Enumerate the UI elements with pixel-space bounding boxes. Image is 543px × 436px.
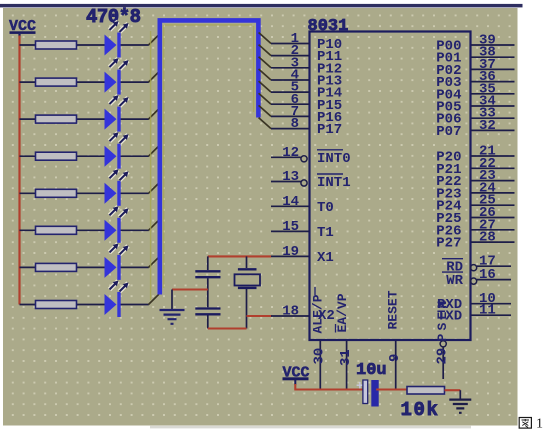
LED D3 [105,95,129,132]
wire: R7 leads and LED7 anode/cathode wires [20,266,149,268]
pin 16 (WR) right side [442,267,511,289]
IC U1 8031 body [310,32,471,341]
capacitor C2 [195,309,220,329]
svg-text:16: 16 [479,267,496,283]
pin 12 (INT0) left side [271,145,351,167]
LED D1 [105,21,129,58]
pin name RXD [437,297,462,313]
pin 7 (P16) left side [271,104,342,126]
svg-text:8: 8 [291,116,299,132]
svg-text:WR: WR [446,273,463,289]
svg-text:11: 11 [479,303,496,319]
svg-text:32: 32 [479,118,496,134]
LED D5 [105,169,129,206]
pin 36 (P03) right side [436,69,514,91]
pin 25 (P24) right side [436,193,514,215]
svg-text:X1: X1 [317,250,334,266]
wire: X1 net (pin19 to crystal/C1, red) [208,255,271,257]
pin 14 (T0) left side [271,194,334,216]
bus entry to pin 2 [259,45,271,56]
resistor R7 (470) [36,263,77,271]
bus (P1 port bus, blue U shape) [151,20,259,300]
bus entry to pin 4 [259,69,271,80]
svg-text:T0: T0 [317,200,334,216]
svg-text:10k: 10k [401,399,440,421]
pin 9 (RESET) bottom [385,290,403,389]
resistor R6 (470) [36,226,77,234]
wire: X2 net to pin 18 (red) [247,315,273,317]
power symbol VCC (bottom) [283,364,310,385]
svg-text:12: 12 [282,145,299,161]
wire: ground branch from C1/C2 junction (red) [172,288,208,290]
bus entry from LED3 [149,109,159,119]
ground symbol (reset) [449,390,471,413]
pin 26 (P25) right side [436,205,514,227]
bus entry to pin 7 [259,105,271,116]
svg-text:P07: P07 [436,124,461,140]
pin 2 (P11) left side [271,43,342,65]
LED D2 [105,58,129,95]
svg-text:T1: T1 [317,225,334,241]
svg-text:P17: P17 [317,122,342,138]
bus entry to pin 3 [259,57,271,68]
bus entry to pin 8 [259,118,271,129]
bus entry from LED7 [149,257,159,267]
svg-text:INT0: INT0 [317,151,351,167]
wire: VCC to C3 (red) [295,384,364,390]
bus entry to pin 6 [259,93,271,104]
pin 15 (T1) left side [271,219,334,241]
pin 22 (P21) right side [436,156,514,178]
wire: VCC rail (red vertical) [18,36,20,305]
pin 18 (X2) left side [271,304,310,320]
capacitor C3 10u (electrolytic) [356,361,387,407]
pin 37 (P02) right side [436,57,514,79]
pin 21 (P20) right side [436,144,514,166]
pin 4 (P13) left side [271,68,342,90]
pin 29 (PSEN) bottom [434,297,450,379]
pin 5 (P14) left side [271,80,342,102]
pin 24 (P23) right side [436,180,514,202]
pin 3 (P12) left side [271,55,342,77]
svg-text:29: 29 [434,348,450,365]
pin 13 (INT1) left side [271,169,351,191]
bus entry to pin 5 [259,81,271,92]
wire: R1 leads and LED1 anode/cathode wires [20,44,149,46]
svg-text:18: 18 [282,304,299,320]
pin 30 (ALE/P) bottom [311,287,328,390]
pin 28 (P27) right side [436,230,514,252]
wire: R2 leads and LED2 anode/cathode wires [20,81,149,83]
resistor R1 (470) [36,41,77,49]
crystal Y1 [235,256,261,328]
ground symbol (oscillator) [160,290,185,324]
top border rule [0,4,523,8]
bus entry from LED6 [149,220,159,230]
wire: R4 leads and LED4 anode/cathode wires [20,155,149,157]
svg-text:31: 31 [338,349,354,366]
pin 38 (P01) right side [436,45,514,67]
pin 1 (P10) left side [271,31,342,53]
svg-text:10u: 10u [356,361,387,380]
LED D4 [105,132,129,169]
svg-text:EA/VP: EA/VP [335,293,350,332]
resistor R8 (470) [36,301,77,309]
pin 34 (P05) right side [436,94,514,116]
shadow under sheet edge [150,426,471,429]
wire: R5 leads and LED5 anode/cathode wires [20,192,149,194]
svg-text:RESET: RESET [385,290,400,329]
pin 6 (P15) left side [271,92,342,114]
svg-text:13: 13 [282,169,299,185]
pin 17 (RD) right side [442,254,511,276]
svg-text:30: 30 [312,348,328,365]
svg-text:14: 14 [282,194,299,210]
svg-text:INT1: INT1 [317,175,351,191]
svg-text:19: 19 [282,244,299,260]
svg-text:9: 9 [387,354,403,362]
pin 11 () right side [471,303,511,319]
wire: R3 leads and LED3 anode/cathode wires [20,118,149,120]
pin 23 (P22) right side [436,168,514,190]
wire: C3 to R9/RESET (red) [376,388,407,390]
svg-text:1: 1 [536,417,543,432]
resistor R2 (470) [36,78,77,86]
pin 10 () right side [471,291,511,307]
svg-text:ALE/P: ALE/P [311,294,326,333]
capacitor C1 [195,256,220,307]
pin 39 (P00) right side [436,33,514,55]
wire: C2 bottom to crystal bottom (red) [208,327,247,329]
wire: R8 leads and LED8 anode/cathode wires [20,304,149,306]
pin name TXD [437,309,462,325]
svg-text:28: 28 [479,230,496,246]
pin 19 (X1) left side [271,244,334,266]
power symbol VCC (top left) [9,18,36,37]
svg-text:PSEN: PSEN [435,297,450,341]
bus entry to pin 1 [259,33,271,44]
pin 27 (P26) right side [436,217,514,239]
svg-text:P27: P27 [436,236,461,252]
LED D8 [105,281,129,318]
bus entry from LED5 [149,183,159,193]
resistor R9 10k [401,387,445,422]
pin 33 (P06) right side [436,106,514,128]
bus entry from LED2 [149,72,159,82]
svg-text:8031: 8031 [308,17,349,36]
bus entry from LED1 [149,35,159,45]
bus entry from LED8 [149,294,159,304]
wire: R6 leads and LED6 anode/cathode wires [20,229,149,231]
LED D6 [105,206,129,243]
pin name X2 (pin 18) [318,308,335,324]
pin 32 (P07) right side [436,118,514,140]
resistor R4 (470) [36,152,77,160]
svg-text:15: 15 [282,219,299,235]
pin 8 (P17) left side [271,116,342,138]
LED D7 [105,243,129,280]
bus entry from LED4 [149,146,159,156]
resistor R3 (470) [36,115,77,123]
pin 35 (P04) right side [436,81,514,103]
resistor R5 (470) [36,189,77,197]
caption: figure 1 (Chinese char drawn as paths) [519,417,543,432]
wire: R9 to ground (red) [445,389,461,391]
pin 31 (EA/VP) bottom [335,293,354,389]
